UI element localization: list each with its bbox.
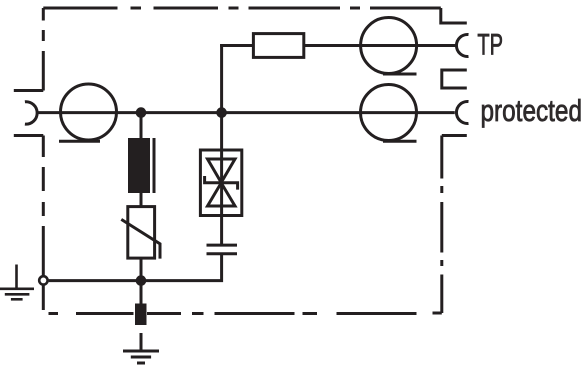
device outline left notch (input terminal opening): [14, 91, 44, 136]
wire capacitor down and left to earth circle: [49, 254, 222, 281]
device outline right edge (dash-dot): [433, 136, 442, 314]
svg-text:protected: protected: [481, 94, 583, 128]
suppressor diode TVS (bidirectional): [200, 150, 241, 216]
wire TVS branch vertical through box: [220, 113, 223, 245]
device outline top edge (dash-dot): [43, 7, 441, 10]
wire GDT to varistor: [140, 193, 143, 206]
device outline top-right step: [441, 8, 467, 23]
wire varistor to bottom node: [140, 258, 143, 304]
svg-text:TP: TP: [477, 29, 503, 62]
node open circle (earth connection on outline): [39, 276, 47, 284]
gas discharge tube to earth (indirect earthing, filled): [135, 304, 147, 326]
decoupling element protected (circle with breakaway contact): [361, 85, 417, 142]
node junction dot left (varistor branch): [136, 107, 147, 118]
terminal protected arc: [456, 102, 468, 124]
capacitor C: [207, 245, 238, 254]
node junction dot middle (TVS branch): [216, 107, 227, 118]
wire TP branch horizontal to resistor: [220, 44, 253, 47]
device outline bottom edge (dash-dot): [49, 312, 417, 315]
decoupling element TP (circle with breakaway contact): [361, 18, 417, 75]
terminal TP arc: [456, 34, 468, 56]
wire main line unprotected to protected: [37, 111, 455, 114]
resistor R (decoupling): [253, 34, 303, 58]
node junction dot bottom (earth line): [136, 275, 147, 286]
device outline right notch between TP and protected: [442, 70, 467, 88]
wire ground stem: [140, 333, 143, 351]
varistor MOV: [121, 207, 160, 259]
wire TP branch vertical: [220, 44, 223, 113]
decoupling element input (circle with breakaway contact): [59, 84, 117, 141]
wire junction to GDT: [140, 113, 143, 139]
wire resistor to TP terminal through decoupling circle: [304, 44, 456, 47]
device outline right corner below protected: [442, 134, 467, 137]
terminal input (unprotected) arc: [25, 102, 37, 124]
ground symbol left: [0, 265, 34, 300]
device outline left edge (dash-dot): [42, 8, 45, 310]
gas discharge tube GDT (filled): [128, 138, 154, 193]
ground symbol bottom: [123, 351, 159, 363]
